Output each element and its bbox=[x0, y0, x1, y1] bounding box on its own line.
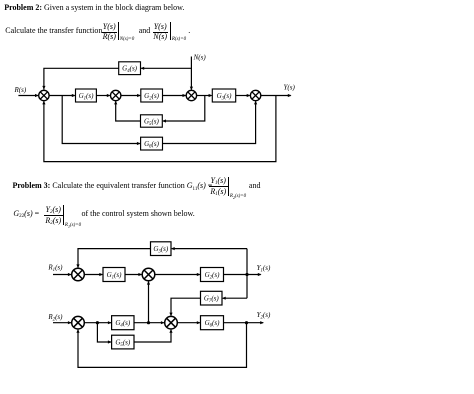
arrow into G6 left bbox=[137, 142, 141, 145]
wire top to G3 input bbox=[172, 248, 247, 250]
block G7(s) bbox=[201, 291, 223, 305]
block G1(s) bbox=[103, 268, 125, 282]
arrow into SJ4 top from G7 bbox=[169, 313, 172, 317]
svg-text:G4(s): G4(s) bbox=[122, 65, 138, 74]
arrow into G6 left bbox=[197, 321, 201, 324]
arrow into SJ3 left bbox=[68, 321, 72, 324]
block G4(s) bbox=[119, 62, 141, 75]
wire N(s) input vertical bbox=[190, 57, 192, 90]
arrow into SJ3 left bbox=[183, 94, 187, 97]
summing junction SJ1 bbox=[39, 90, 49, 100]
wire SJ3 to G4 bbox=[84, 322, 111, 324]
wire G7 output to SJ4 top bbox=[171, 298, 201, 315]
svg-text:G1(s): G1(s) bbox=[79, 92, 95, 101]
wire tap up to SJ2 bottom bbox=[148, 282, 150, 323]
arrow into SJ1 top from G4 bbox=[42, 86, 45, 90]
wire tap to G5 input bbox=[97, 323, 111, 342]
wire tap N to G4 bbox=[141, 67, 191, 69]
wire G4 output to SJ1 top bbox=[44, 68, 119, 89]
summing junction SJ4 bbox=[250, 90, 260, 100]
summing junction SJ1 (R1) bbox=[72, 268, 85, 281]
block G1(s) bbox=[76, 89, 97, 102]
wire SJ1 to G1 bbox=[49, 95, 75, 97]
junction dot SJ2 feed tap bbox=[147, 321, 150, 324]
arrow into SJ2 bottom from G5 bbox=[114, 101, 117, 105]
arrow into SJ1 left bbox=[68, 273, 72, 276]
wire SJ2 to G2 bbox=[121, 95, 140, 97]
arrow into G7 right bbox=[222, 297, 226, 300]
and bbox=[249, 182, 261, 190]
block G5(s) bbox=[141, 115, 163, 127]
arrow into SJ2 bottom bbox=[147, 281, 150, 285]
wire R1(s) input bbox=[53, 274, 71, 276]
svg-text:G3(s): G3(s) bbox=[217, 92, 233, 101]
wire R(s) input bbox=[18, 95, 38, 97]
arrow into G3 left bbox=[209, 94, 213, 97]
block G5(s) bbox=[112, 335, 134, 349]
wire G5 output to SJ2 bottom bbox=[116, 101, 141, 121]
junction dot Y2 tap bbox=[245, 321, 248, 324]
arrow into G1 left bbox=[99, 273, 103, 276]
summing junction SJ4 bbox=[165, 316, 178, 329]
wire G2 to SJ3 bbox=[163, 95, 186, 97]
wire G3 output to SJ1 top bbox=[78, 249, 151, 268]
junction dot Y1 tap bbox=[245, 273, 248, 276]
svg-text:N(s): N(s) bbox=[193, 54, 207, 62]
wire G6 output to SJ4 bottom bbox=[163, 101, 256, 143]
svg-text:Y(s): Y(s) bbox=[284, 83, 296, 91]
arrow Y2(s) output end bbox=[260, 321, 264, 324]
svg-text:R(s): R(s) bbox=[14, 86, 27, 94]
arrow into SJ3 bottom from loop bbox=[76, 329, 79, 333]
wire G2 to Y1 output bbox=[224, 274, 261, 276]
svg-text:G2(s): G2(s) bbox=[205, 271, 221, 280]
arrow into SJ2 left bbox=[138, 273, 142, 276]
wire G1 to SJ2 bbox=[96, 95, 109, 97]
block G4(s) bbox=[112, 316, 134, 330]
and bbox=[139, 27, 151, 35]
arrow into SJ4 bottom from G5 bbox=[169, 329, 172, 333]
svg-text:R2(s): R2(s) bbox=[47, 313, 63, 322]
svg-text:Y1(s): Y1(s) bbox=[257, 264, 271, 273]
arrow into SJ1 bottom from outer loop bbox=[42, 101, 45, 105]
arrow into SJ1 top from G3 bbox=[76, 264, 79, 268]
wire bottom feedback loop to SJ3 bottom bbox=[78, 323, 247, 368]
wire SJ1 to G1 bbox=[84, 274, 102, 276]
junction dot G5 tap bbox=[96, 321, 99, 324]
arrow into SJ1 left bbox=[35, 94, 39, 97]
fraction Y(s)/N(s) bbox=[153, 23, 168, 31]
svg-text:Y2(s): Y2(s) bbox=[257, 311, 271, 320]
Problem 2 heading bbox=[4, 4, 184, 12]
arrow into SJ4 left bbox=[161, 321, 165, 324]
summing junction SJ3 bbox=[186, 90, 196, 100]
svg-text:G2(s): G2(s) bbox=[144, 92, 160, 101]
wire R2(s) input bbox=[53, 322, 71, 324]
block G2(s) bbox=[141, 89, 163, 102]
arrow into G1 left bbox=[72, 94, 76, 97]
wire SJ4 to Y(s) output bbox=[261, 95, 291, 97]
svg-text:G6(s): G6(s) bbox=[205, 319, 221, 328]
summing junction SJ2 bbox=[111, 90, 121, 100]
wire SJ2 to G2 bbox=[155, 274, 200, 276]
wire G4 to SJ4 bbox=[134, 322, 164, 324]
arrow into SJ4 left bbox=[247, 94, 251, 97]
block G6(s) bbox=[201, 316, 224, 330]
wire G5 output to SJ4 bottom bbox=[134, 330, 171, 342]
block G2(s) bbox=[201, 268, 224, 282]
arrow into G5 left bbox=[108, 340, 112, 343]
wire outer feedback loop Y to SJ1 bottom bbox=[44, 96, 276, 162]
block G3(s) bbox=[212, 89, 235, 102]
arrow into SJ3 top from N(s) bbox=[190, 87, 193, 91]
wire feedback vertical at x=247 bbox=[246, 249, 248, 299]
svg-text:G5(s): G5(s) bbox=[115, 339, 131, 348]
arrow into G4 right bbox=[141, 67, 145, 70]
block G6(s) bbox=[141, 137, 163, 150]
svg-text:G4(s): G4(s) bbox=[115, 319, 131, 328]
Problem 3 second line: G22 equation bbox=[13, 210, 39, 218]
arrow into G4 left bbox=[108, 321, 112, 324]
wire tap to G6 input bbox=[62, 96, 140, 144]
wire to G7 input bbox=[223, 297, 247, 299]
arrow Y(s) output end bbox=[288, 94, 292, 97]
arrow into G5 right bbox=[162, 119, 166, 122]
arrow into SJ2 left bbox=[107, 94, 111, 97]
fraction Y(s)/R(s) bbox=[102, 23, 117, 31]
fraction Y2(s)/R2(s) bbox=[44, 206, 63, 214]
svg-text:G5(s): G5(s) bbox=[144, 117, 160, 126]
wire SJ4 to G6 bbox=[177, 322, 199, 324]
arrow into G2 left bbox=[197, 273, 201, 276]
Problem 3 heading with G11 transfer function bbox=[13, 182, 213, 190]
block G3(s) top bbox=[151, 242, 172, 256]
arrow into G3 right bbox=[171, 247, 175, 250]
svg-text:G6(s): G6(s) bbox=[144, 140, 160, 149]
fraction Y1(s)/R1(s) bbox=[209, 177, 228, 185]
wire tap to G5 input bbox=[163, 96, 205, 122]
summing junction SJ3 (R2) bbox=[72, 316, 85, 329]
summing junction SJ2 bbox=[142, 268, 155, 281]
arrow Y1(s) output end bbox=[258, 273, 262, 276]
svg-text:R1(s): R1(s) bbox=[47, 264, 63, 273]
wire G3 to SJ4 bbox=[236, 95, 250, 97]
svg-text:G7(s): G7(s) bbox=[204, 295, 220, 304]
svg-text:G3(s): G3(s) bbox=[153, 245, 169, 254]
arrow into SJ4 bottom from G6 bbox=[254, 101, 257, 105]
Problem 2 sentence with transfer functions bbox=[5, 27, 102, 35]
wire G6 to Y2 output bbox=[224, 322, 264, 324]
wire SJ3 to G3 bbox=[197, 95, 212, 97]
svg-text:G1(s): G1(s) bbox=[107, 271, 123, 280]
wire G1 to SJ2 bbox=[125, 274, 141, 276]
arrow into G2 left bbox=[137, 94, 141, 97]
